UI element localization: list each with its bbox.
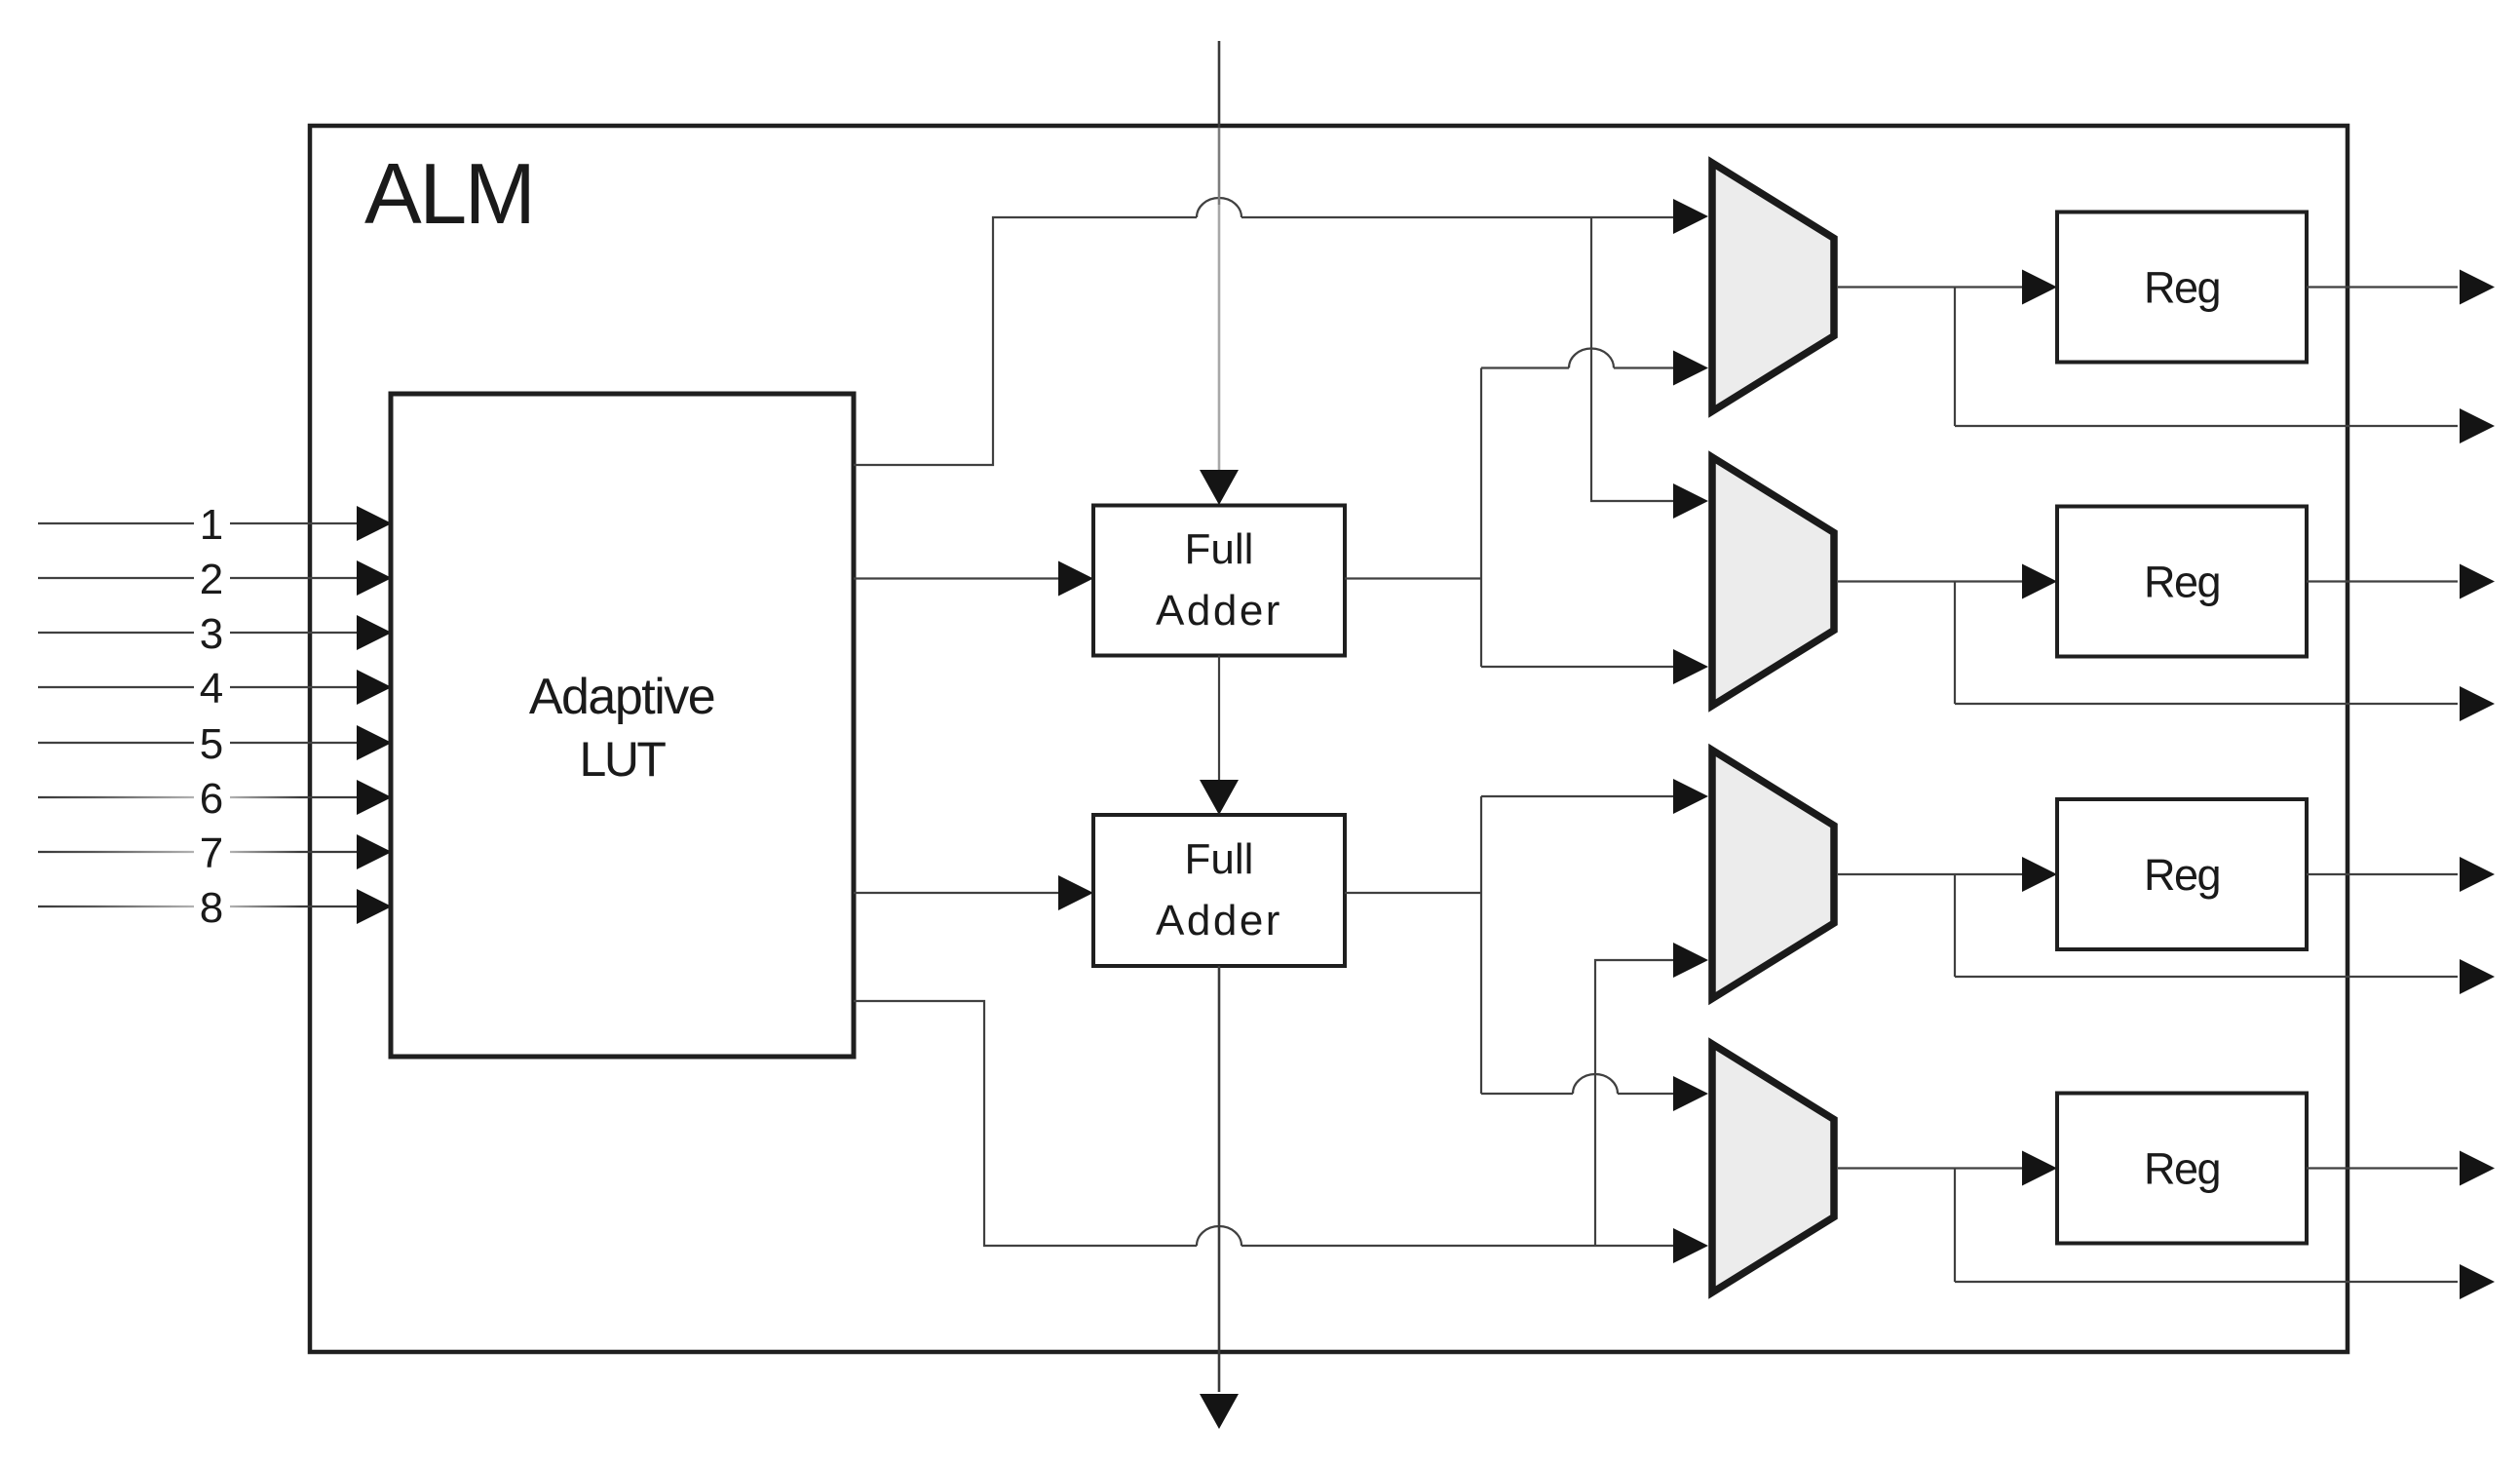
wire FA2 out to mux M4 top input (hop at x=1637) [1481, 1093, 1673, 1095]
mux M4 (trapezoid) [1712, 1044, 1834, 1292]
wire Reg3 output [2307, 873, 2458, 875]
Reg3 output arrowhead [2460, 857, 2495, 892]
wire FA1 out to mux M1 bottom input (hop at x=1633) [1481, 366, 1673, 368]
wire FA2 output trunk [1345, 796, 1481, 1094]
full adder FA2 box [1093, 815, 1345, 966]
svg-text:Reg: Reg [2144, 1144, 2220, 1194]
carry-out wire to bottom of diagram [1218, 966, 1221, 1392]
wire hop over carry chain at (1251,1278) [1197, 1226, 1241, 1246]
input 5 arrowhead into LUT [357, 725, 392, 760]
wire hop over branch at (1637,1122) [1573, 1074, 1618, 1094]
wire Reg2 output [2307, 580, 2458, 582]
wire mux M4 output to register Reg4 [1838, 1167, 2022, 1169]
register Reg4 box [2057, 1094, 2307, 1244]
arrowhead into mux M3 bottom input [1673, 943, 1708, 978]
input 3 arrowhead into LUT [357, 615, 392, 650]
arrowhead into FA2 input [1058, 875, 1093, 910]
wire mux M1 output to register Reg1 [1838, 286, 2022, 288]
wire LUT output to full adder FA2 [854, 892, 1058, 894]
arrowhead into Reg1 [2022, 270, 2057, 305]
svg-text:5: 5 [200, 720, 223, 768]
wire Reg4 output [2307, 1167, 2458, 1169]
svg-text:Adder: Adder [1156, 587, 1282, 635]
wire LUT output to full adder FA1 [854, 577, 1058, 579]
arrowhead into Reg3 [2022, 857, 2057, 892]
arrowhead into mux M1 bottom input [1673, 351, 1708, 386]
input 2 wire [38, 577, 357, 579]
mux M2 (trapezoid) [1712, 457, 1834, 706]
svg-text:7: 7 [200, 829, 223, 877]
svg-text:1: 1 [200, 501, 223, 549]
wire FA2 out to mux M3 top input [1481, 795, 1673, 797]
ALM module boundary box [310, 126, 2348, 1352]
input 7 wire [38, 851, 194, 853]
wire bypass output 1 [1955, 425, 2458, 427]
carry arrowhead into FA2 [1200, 780, 1239, 815]
wire hop over carry chain at (1251,223) [1197, 198, 1241, 217]
arrowhead into mux M4 bottom input [1673, 1228, 1708, 1263]
mux M1 (trapezoid) [1712, 163, 1834, 411]
svg-text:Full: Full [1185, 525, 1254, 573]
arrowhead into mux M1 top input [1673, 199, 1708, 234]
bypass output 1 arrowhead [2460, 408, 2495, 443]
Reg1 output arrowhead [2460, 270, 2495, 305]
bypass output 3 arrowhead [2460, 959, 2495, 994]
Adaptive LUT block [391, 394, 854, 1057]
wire bypass output 3 [1955, 976, 2458, 978]
input 1 wire [38, 522, 357, 524]
mux M3 (trapezoid) [1712, 751, 1834, 999]
svg-text:LUT: LUT [580, 732, 667, 787]
wire FA1 output trunk [1345, 368, 1481, 668]
arrowhead into mux M2 bottom input [1673, 649, 1708, 684]
wire FA1 out to mux M2 bottom input [1481, 666, 1673, 668]
svg-text:8: 8 [200, 884, 223, 932]
input 6 arrowhead into LUT [357, 780, 392, 815]
svg-text:Full: Full [1185, 835, 1254, 883]
input 4 arrowhead into LUT [357, 670, 392, 705]
wire junction branch down to bypass output 4 [1954, 1169, 1956, 1283]
arrowhead into Reg2 [2022, 564, 2057, 599]
register Reg2 box [2057, 507, 2307, 657]
arrowhead into Reg4 [2022, 1151, 2057, 1186]
arrowhead into FA1 input [1058, 561, 1093, 597]
svg-text:Reg: Reg [2144, 850, 2220, 900]
svg-text:3: 3 [200, 610, 223, 658]
wire LUT top output to mux M1 top input [854, 217, 1673, 465]
svg-text:6: 6 [200, 775, 223, 823]
arrowhead into mux M2 top input [1673, 483, 1708, 519]
svg-text:ALM: ALM [364, 145, 533, 242]
carry wire FA1 to FA2 [1218, 656, 1220, 782]
carry-in wire from top of diagram [1218, 41, 1221, 128]
input 8 wire [38, 906, 194, 907]
wire mux M3 output to register Reg3 [1838, 873, 2022, 875]
wire mux M2 output to register Reg2 [1838, 580, 2022, 582]
Reg2 output arrowhead [2460, 564, 2495, 599]
arrowhead into mux M4 top input [1673, 1076, 1708, 1111]
input 8 arrowhead into LUT [357, 889, 392, 924]
wire bypass output 4 [1955, 1281, 2458, 1283]
input 7 arrowhead into LUT [357, 834, 392, 869]
wire junction branch down to bypass output 2 [1954, 582, 1956, 705]
wire junction branch down to bypass output 1 [1954, 288, 1956, 427]
wire Reg1 output [2307, 286, 2458, 288]
full adder FA1 box [1093, 506, 1345, 656]
svg-text:4: 4 [200, 665, 223, 713]
arrowhead into mux M3 top input [1673, 779, 1708, 814]
Reg4 output arrowhead [2460, 1151, 2495, 1186]
wire hop over branch at (1633,377) [1569, 349, 1614, 368]
input 4 wire [38, 686, 357, 688]
svg-text:Adaptive: Adaptive [529, 669, 714, 725]
wire bypass output 2 [1955, 703, 2458, 705]
wire branch down to mux M2 top input [1591, 217, 1673, 501]
svg-text:Reg: Reg [2144, 558, 2220, 607]
input 1 arrowhead into LUT [357, 506, 392, 541]
wire branch up to mux M3 bottom input [1595, 960, 1673, 1246]
bypass output 4 arrowhead [2460, 1264, 2495, 1299]
wire LUT bottom output to mux M4 bottom input [854, 1001, 1673, 1246]
svg-text:Adder: Adder [1156, 897, 1282, 945]
svg-text:Reg: Reg [2144, 263, 2220, 313]
bypass output 2 arrowhead [2460, 686, 2495, 721]
input 3 wire [38, 632, 357, 634]
carry-out arrowhead at bottom [1200, 1394, 1239, 1429]
input 2 arrowhead into LUT [357, 560, 392, 596]
register Reg1 box [2057, 212, 2307, 363]
register Reg3 box [2057, 799, 2307, 949]
input 6 wire [38, 796, 194, 798]
wire junction branch down to bypass output 3 [1954, 874, 1956, 977]
input 5 wire [38, 742, 357, 744]
svg-text:2: 2 [200, 556, 223, 603]
carry arrowhead into FA1 [1200, 470, 1239, 505]
